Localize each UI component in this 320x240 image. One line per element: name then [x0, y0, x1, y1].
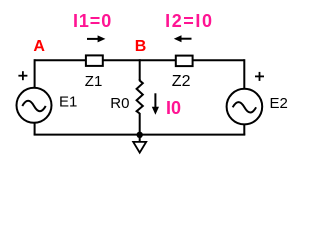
AC source E2 circle — [227, 89, 263, 125]
svg-text:A: A — [33, 38, 45, 55]
svg-text:R0: R0 — [110, 95, 129, 112]
svg-text:Z2: Z2 — [172, 73, 191, 90]
wire E2 bottom stub — [243, 124, 245, 135]
wire top (node A to right corner) — [35, 59, 245, 61]
current arrow I1 (pointing right) — [87, 35, 105, 42]
AC source E2 sine wave — [233, 102, 256, 112]
ground stub — [139, 135, 141, 142]
impedance Z2 box — [176, 56, 193, 67]
ground symbol triangle — [133, 142, 146, 153]
svg-text:E1: E1 — [59, 93, 77, 110]
impedance Z1 box — [86, 55, 103, 66]
svg-text:I1=0: I1=0 — [73, 11, 112, 31]
resistor R0 zigzag — [137, 79, 143, 114]
current arrow I2 (pointing left) — [174, 35, 192, 42]
wire bottom (E1 to E2) — [34, 134, 246, 136]
junction dot at ground node — [137, 132, 143, 138]
svg-text:I0: I0 — [166, 98, 181, 118]
wire node B stub down to R0 — [139, 59, 141, 80]
wire E1 bottom stub — [34, 123, 36, 135]
AC source E1 circle — [17, 88, 52, 123]
wire left vertical (A down to E1) — [34, 59, 36, 88]
current arrow I0 (pointing down) — [152, 93, 159, 115]
svg-text:Z1: Z1 — [85, 73, 103, 90]
plus sign at E1 — [18, 71, 27, 80]
plus sign at E2 — [255, 72, 264, 81]
svg-text:E2: E2 — [270, 95, 288, 112]
svg-text:I2=I0: I2=I0 — [165, 11, 214, 31]
AC source E1 sine wave — [22, 101, 45, 111]
wire right vertical (corner down to E2) — [243, 59, 245, 89]
svg-text:B: B — [135, 38, 147, 55]
wire R0 bottom to junction — [139, 113, 141, 135]
